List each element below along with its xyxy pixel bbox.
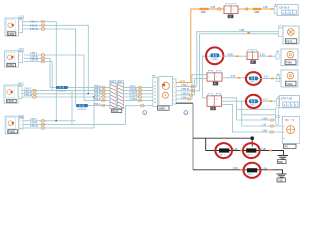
oval top b [245,8,248,10]
wire S1 pin3 [23,29,76,104]
svg-text:L-B: L-B [262,123,266,126]
svg-text:F39A: F39A [286,82,292,86]
dash row3 mid [236,55,239,57]
oval row1 [102,86,105,89]
oval S2 wire1a [41,57,45,60]
wire circle3 right [258,100,277,102]
inline connector M38 left strip [110,83,116,109]
wire S1 pin2 [23,22,57,121]
svg-text:F36C: F36C [8,63,15,67]
svg-text:0.5P-W: 0.5P-W [30,28,39,31]
wire amp out4 [176,78,207,95]
wire amp grey out [176,102,193,104]
junction box B5 [280,96,300,108]
oval B6 row3 [270,131,273,134]
oval amp out4 [189,94,192,97]
svg-text:0.5B-Y: 0.5B-Y [181,84,189,87]
dash row A right [269,150,272,152]
oval S4 wire2 [41,120,45,123]
oval S1 wire3 [41,28,45,31]
svg-text:0.5Y: 0.5Y [231,75,236,78]
svg-text:0.5B-R: 0.5B-R [181,92,189,95]
connector bracket of S2 [19,52,23,63]
svg-text:P08-L: P08-L [94,103,101,106]
bracket B3 [276,53,279,59]
wire amp row3 riser [202,56,210,98]
oval row4 [102,96,105,99]
svg-text:0.5W: 0.5W [262,117,268,120]
wire S1 pin1 [23,25,89,94]
svg-text:CW 2: CW 2 [250,104,256,106]
tag B2 [279,25,283,27]
wire D branch v2 [242,101,283,126]
svg-text:0.5R-B: 0.5R-B [130,98,138,101]
tag M5 of S1 [19,16,24,19]
connector D [207,96,222,107]
wire D out1 [222,98,276,120]
svg-text:3.0B: 3.0B [261,148,266,151]
junction S4 pin2 [56,120,57,121]
wire row5 to connector [84,99,110,101]
wire row1 to connector [50,86,110,88]
svg-text:F38A: F38A [286,61,292,65]
svg-text:GP 1: GP 1 [220,154,226,156]
wire row4 right [258,77,281,79]
connector E top [224,6,238,14]
horn H1 [281,49,298,66]
oval S1 wire1 [41,24,45,27]
svg-text:0.5B: 0.5B [239,29,244,32]
wire S4 pin2 [23,120,76,122]
wire mid row5 [124,99,153,101]
splice W1 [56,86,68,93]
circled splice CW1 [211,53,220,60]
tag C1 [208,70,212,72]
inline connector M38 right strip [117,83,123,109]
wire S3 row4 [22,96,110,98]
bracket B4 [277,76,280,82]
connector bracket of S3 [18,87,22,99]
fusible link GR8 bar1 [200,8,209,14]
wire S2 pin1b [24,62,52,91]
label E [228,15,234,19]
svg-text:0.85: 0.85 [263,6,268,9]
oval row2 [102,89,105,92]
amplifier U1 body [159,77,173,106]
wire S4 pin3 [23,97,94,128]
wire amp to D pin1 [202,97,207,99]
svg-text:AMP1: AMP1 [158,106,166,110]
tag M7 of S3 [18,83,23,86]
oval row5 [102,99,105,102]
svg-text:P08-R: P08-R [94,98,101,101]
label F [250,60,255,64]
info icon i1 [143,111,147,115]
wire S4 pin1 [23,106,153,125]
tag M8 of S4 [19,115,24,118]
wire B6 stub1 [237,108,276,110]
svg-text:B214: B214 [112,109,119,113]
speaker S2 rear-left [5,51,19,67]
svg-text:0.85: 0.85 [211,6,216,9]
wire black splice run [193,137,251,139]
svg-text:CW 1: CW 1 [250,82,256,84]
splice point P1 [251,137,254,140]
wire cross link [71,91,73,125]
svg-text:0.5G-W: 0.5G-W [24,94,33,97]
wire B6 stub2 [242,114,276,116]
wire row3 mid [219,55,247,57]
svg-text:G06: G06 [278,178,283,182]
splice bar GP1 [219,148,229,156]
svg-text:A#-B: A#-B [180,80,186,83]
oval amp out5 [188,98,191,101]
junction row4 [93,96,94,97]
oval amp out3 [191,90,194,93]
wire splice drop [251,140,253,147]
label D [210,107,215,111]
connector C [207,73,222,81]
svg-text:0.5V-B: 0.5V-B [30,122,38,125]
bracket B5 [277,98,279,105]
dash pair wires [247,32,250,34]
highlight circle 2 [246,72,261,85]
wire mid row3 [124,93,153,95]
connector bracket of S1 [19,20,23,33]
dash row B left [240,169,243,171]
tag E2 [232,4,236,6]
dash row4 mid [238,77,241,79]
tag D2 [216,93,220,95]
oval mid row4 [138,96,141,99]
svg-text:0.5G: 0.5G [260,53,265,56]
connector F [247,52,258,60]
oval mid row1 [138,86,141,89]
junction row3 [88,93,89,94]
tag F2 [253,50,257,52]
wire S3 row2 [22,90,110,92]
svg-text:GP 3: GP 3 [248,174,254,176]
svg-text:H6: H6 [284,145,288,149]
tag F1 [248,50,252,52]
oval S4 mid wire [140,104,144,107]
wire mid row4 [124,96,153,98]
ground G2 [277,174,287,182]
svg-text:ETR T.AB: ETR T.AB [281,98,292,101]
svg-text:0.5Y: 0.5Y [264,76,269,79]
highlight circle 3 [246,95,261,108]
svg-text:CW01: CW01 [227,53,234,56]
svg-text:F36D: F36D [7,99,14,103]
tag M38a [110,80,116,83]
speaker S1 front-left [5,18,19,36]
svg-text:2S: 2S [228,15,231,19]
dash row B right [268,169,271,171]
oval B6 row1 [270,119,273,122]
svg-text:C/B No.8: C/B No.8 [279,7,290,10]
wire orange top a [209,8,224,10]
svg-text:CW03: CW03 [211,59,218,61]
wire ground row B [193,170,283,174]
wire S3 row3 [22,93,110,95]
amplifier U1 bracket right [173,79,177,104]
svg-text:0.5V-Y: 0.5V-Y [30,118,38,121]
highlight circle 5 [243,143,260,158]
dash row3 right [269,55,272,57]
wire amp out2 [176,32,278,87]
oval S4 wire1 [41,123,45,126]
fusible link GR8 bar2 [253,8,261,14]
svg-text:0.5B-W: 0.5B-W [181,88,190,91]
oval top a [218,8,221,11]
horn H2 [281,70,298,87]
oval amp out2 [191,85,194,88]
svg-text:F36B: F36B [8,32,15,36]
wire amp orange out [176,9,200,83]
circled splice CW2 [249,77,258,84]
oval S2 wire2 [41,54,45,57]
wire orange top b [238,8,253,10]
info icon i2 [184,111,188,115]
splice W2 [76,104,88,111]
svg-text:0.5L-B: 0.5L-B [30,24,37,27]
splice bar GP2 [246,148,256,156]
highlight circle 4 [215,143,232,158]
wire D out2 circle row [222,100,250,102]
wire D out3 [222,104,283,132]
wire S2 pin1a [24,58,50,87]
dash top c [271,8,274,10]
oval mid row2 [138,89,141,92]
label M38 [112,109,122,113]
oval S3 row2 [33,89,37,92]
svg-text:B08: B08 [278,160,283,164]
bracket B6 [275,108,279,124]
svg-text:GP 2: GP 2 [247,154,253,156]
oval S1 wire2 [41,20,45,23]
svg-text:0.5V-W: 0.5V-W [30,125,39,128]
svg-text:F36E: F36E [8,130,15,134]
control unit B6 [282,116,299,143]
ground G1 [277,156,288,164]
wire mid row1 [124,86,153,88]
tag M38b [117,80,123,83]
speaker S3 [4,85,18,103]
wire row6 to connector [76,104,110,107]
svg-text:F37A: F37A [286,39,292,43]
oval row3 [102,93,105,96]
tag E1 [226,4,230,6]
splice bar GP3 [247,168,257,176]
dash row A mid [240,150,243,152]
wire grey vertical [192,103,194,170]
bracket B2 [278,28,283,37]
speaker S4 [5,116,19,134]
tag C2 [217,70,221,72]
wire amp out3 [176,34,278,91]
svg-text:3.0B: 3.0B [262,167,267,170]
oval row6 [102,104,105,107]
svg-text:0.5B: 0.5B [262,129,267,132]
oval S3 row4 [33,96,37,99]
wire row4 mid [222,77,249,79]
connector bracket of S4 [19,117,23,128]
tag D1 [208,93,212,95]
circled splice CW3 [249,99,258,106]
wire row3 right [258,55,276,57]
svg-text:GR8: GR8 [254,11,260,14]
tag M6 of S2 [19,49,24,52]
highlight circle 1 [206,47,223,64]
label U1 [158,106,170,110]
svg-text:3.0B: 3.0B [233,148,238,151]
highlight circle 6 [244,163,261,178]
label B6 [283,144,296,149]
wire black downleft [205,138,207,150]
oval B6 row2 [270,125,273,128]
wire mid row2 [124,90,153,92]
dash row4 right [271,78,274,80]
svg-text:15A: 15A [285,119,290,122]
oval mid row5 [138,99,141,102]
oval S2 wire1b [41,60,45,63]
wire orange top c [261,8,274,10]
amplifier U1 bracket left [153,78,158,107]
svg-text:CW02-B: CW02-B [77,109,86,111]
bracket B1 [274,6,277,13]
wire amp out5 [176,75,207,99]
fuse box B1 [277,5,298,16]
label C [213,82,218,86]
dash circle3 right [270,100,273,102]
svg-text:3.0B: 3.0B [233,167,238,170]
svg-text:0.5L-Y: 0.5L-Y [30,21,37,24]
svg-text:GR8: GR8 [201,11,207,14]
svg-text:0.5R-W: 0.5R-W [30,59,39,62]
svg-text:CW01-B: CW01-B [57,91,66,93]
tweeter T1 [283,26,299,44]
svg-text:A2-G: A2-G [263,99,269,102]
oval mid row3 [138,93,141,96]
oval S3 row3 [33,93,37,96]
wire S2 pin2 [24,55,84,100]
oval S4 wire3 [41,127,45,130]
wire ground row A [206,151,284,156]
